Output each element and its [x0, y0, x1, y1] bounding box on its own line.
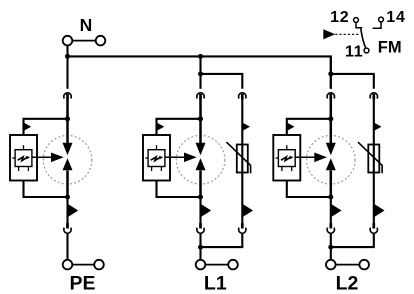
wire L1 branch to varistor arm: [201, 74, 243, 89]
junction L1 lower: [198, 195, 203, 200]
junction L1 branch: [198, 71, 203, 76]
thermal disconnect lower (PE): [64, 223, 71, 233]
svg-text:PE: PE: [69, 273, 95, 294]
wire L1 to indicator box top: [157, 119, 201, 136]
FM contact pin 11: [364, 48, 369, 53]
disconnect indicator flag lower (L2): [332, 204, 342, 216]
thermal disconnect upper (L2 varistor arm): [370, 93, 377, 100]
wire varistor arm L1: [241, 94, 243, 228]
wire varistor arm L2: [373, 94, 375, 228]
svg-text:14: 14: [386, 9, 405, 26]
terminal PE contact 2: [94, 260, 104, 270]
thermal disconnect lower (L1): [197, 223, 204, 233]
terminal L1 contact 1: [196, 260, 206, 270]
spark gap arrester (L1): [196, 143, 206, 170]
wire L2 to indicator box top: [287, 119, 331, 136]
wire top bus N-L1-L2: [68, 56, 331, 88]
junction L1 upper: [198, 116, 203, 121]
wire PE to indicator box top: [24, 119, 68, 136]
wire L2 below spark gap: [330, 170, 333, 198]
spark gap dashed outline (L2): [307, 136, 356, 185]
wire L1 arm to lower disconnect: [199, 197, 201, 228]
wire L2 branch to varistor arm: [331, 74, 374, 89]
wire varistor arm L2 return: [331, 234, 374, 248]
wire PE indicator box bottom return: [24, 181, 68, 198]
terminal L2 wire: [336, 264, 360, 266]
wire PE arm to spark gap: [66, 99, 69, 143]
terminal N contact 2: [96, 36, 106, 46]
disconnect indicator flag lower (L2 varistor arm): [375, 204, 385, 216]
wire FM pin 14 hook: [373, 22, 381, 28]
wire L1 indicator box bottom return: [157, 181, 201, 198]
wire L1 to terminal: [199, 234, 201, 260]
wire PE below spark gap: [66, 170, 69, 198]
terminal N contact 1: [63, 36, 73, 46]
thermal disconnect lower (L1 varistor arm): [239, 223, 246, 233]
wire PE to terminal: [66, 234, 68, 260]
junction L2 branch: [328, 71, 333, 76]
thermal disconnect lower (L2 varistor arm): [370, 223, 377, 233]
FM actuator dashed link: [335, 33, 360, 35]
wire N terminal to bus: [66, 45, 68, 57]
disconnect indicator flag upper (L2): [288, 123, 295, 131]
disconnect indicator flag upper (PE): [24, 123, 31, 131]
FM switch arm: [361, 29, 366, 49]
status indicator box (L1): [143, 135, 197, 181]
disconnect indicator flag lower (L1 varistor arm): [243, 204, 253, 216]
junction bus/L1: [198, 54, 203, 59]
disconnect indicator flag varistor (L2): [375, 123, 382, 131]
junction PE lower: [65, 195, 70, 200]
varistor (L1): [226, 142, 250, 173]
spark gap dashed outline (PE): [43, 136, 92, 185]
junction PE upper: [65, 116, 70, 121]
terminal PE wire: [72, 264, 94, 266]
thermal disconnect upper (L2): [327, 93, 334, 100]
wire L2 arm to spark gap: [330, 99, 333, 143]
status indicator box (PE): [10, 135, 64, 181]
wire L1 arm upper: [199, 56, 201, 88]
thermal disconnect upper (L1): [197, 93, 204, 100]
svg-text:L2: L2: [336, 273, 359, 294]
wire L2 arm upper: [330, 56, 332, 88]
terminal L1 contact 2: [228, 260, 238, 270]
wire L2 arm to lower disconnect: [330, 197, 332, 228]
terminal L2 contact 1: [326, 260, 336, 270]
svg-text:12: 12: [330, 9, 349, 26]
disconnect indicator flag upper (L1): [157, 123, 164, 131]
varistor (L2): [358, 142, 382, 173]
wire PE arm to lower disconnect: [66, 197, 68, 228]
spark gap dashed outline (L1): [176, 136, 225, 185]
wire L2 to terminal: [330, 234, 332, 260]
svg-text:FM: FM: [378, 39, 402, 57]
FM actuator arrow: [323, 29, 335, 39]
terminal L1 wire: [205, 264, 228, 266]
wire L1 arm to spark gap: [199, 99, 202, 143]
junction L1 join: [198, 245, 203, 250]
spark gap arrester (PE): [63, 143, 73, 170]
junction L2 join: [328, 245, 333, 250]
disconnect indicator flag lower (PE): [68, 204, 78, 216]
thermal disconnect upper (L1 varistor arm): [239, 93, 246, 100]
terminal L2 contact 2: [359, 260, 369, 270]
junction L2 lower: [328, 195, 333, 200]
thermal disconnect lower (L2): [327, 223, 334, 233]
junction bus/PE: [65, 54, 70, 59]
wire L1 below spark gap: [199, 170, 202, 198]
svg-text:N: N: [80, 15, 93, 35]
wire varistor arm L1 return: [201, 234, 243, 248]
spark gap arrester (L2): [326, 143, 336, 170]
FM contact pin 14: [379, 17, 384, 22]
svg-text:11: 11: [345, 44, 364, 61]
disconnect indicator flag varistor (L1): [243, 123, 250, 131]
FM contact pin 12: [354, 18, 359, 23]
junction L2 upper: [328, 116, 333, 121]
thermal disconnect upper (PE): [64, 93, 71, 100]
wire FM pin 12 hook: [356, 22, 362, 27]
svg-text:L1: L1: [204, 273, 227, 294]
disconnect indicator flag lower (L1): [201, 204, 211, 216]
wire L2 indicator box bottom return: [287, 181, 331, 198]
terminal N wire: [72, 40, 95, 42]
wire PE arm upper: [66, 56, 68, 88]
terminal PE contact 1: [63, 260, 73, 270]
status indicator box (L2): [273, 135, 327, 181]
